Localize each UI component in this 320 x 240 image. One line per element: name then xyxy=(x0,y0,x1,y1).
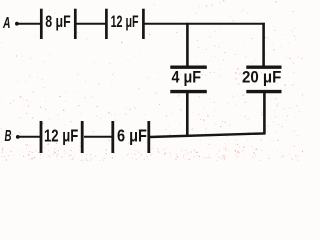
svg-text:8 μF: 8 μF xyxy=(45,13,71,31)
svg-text:6 μF: 6 μF xyxy=(117,126,147,146)
svg-text:20 μF: 20 μF xyxy=(242,69,281,87)
svg-text:A: A xyxy=(2,15,10,32)
svg-text:12 μF: 12 μF xyxy=(111,13,139,31)
svg-text:4 μF: 4 μF xyxy=(172,69,202,87)
svg-text:12 μF: 12 μF xyxy=(44,126,79,146)
svg-text:B: B xyxy=(5,128,12,145)
